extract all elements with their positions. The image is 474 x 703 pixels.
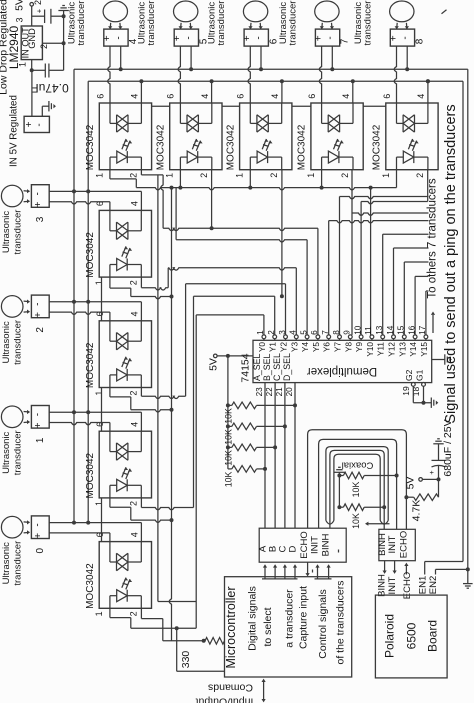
- resistor R8 4.7K: [414, 494, 439, 501]
- transducer T0 arrows: [24, 521, 30, 524]
- pin Y4 (output 5) of 74154: [305, 335, 309, 339]
- svg-text:5V: 5V: [14, 0, 26, 11]
- junction U5 pin4 on bus2: [352, 81, 354, 103]
- junction T4 - on bus1: [119, 67, 123, 71]
- wire U5 pin2 drop to Y8: [351, 170, 353, 335]
- svg-text:-: -: [32, 413, 43, 416]
- svg-text:4: 4: [129, 311, 139, 316]
- svg-text:transducer: transducer: [13, 541, 24, 586]
- svg-text:INIT: INIT: [310, 536, 321, 554]
- optocoupler U7 MOC3042 package: [99, 210, 151, 277]
- wire A_SEL select line: [264, 383, 266, 529]
- junction EN2 on ground rail: [466, 567, 470, 571]
- junction R6 on BINH line: [382, 505, 386, 509]
- svg-text:INIT: INIT: [387, 535, 398, 553]
- svg-text:Signal used to send out a ping: Signal used to send out a ping on the tr…: [443, 104, 459, 423]
- svg-text:MOC3042: MOC3042: [85, 452, 96, 498]
- pin 2 internal lead (U8): [127, 374, 141, 376]
- svg-text:10K: 10K: [351, 482, 361, 498]
- wire Y10 drop from anode common: [370, 188, 372, 335]
- svg-text:Control signals: Control signals: [317, 589, 329, 658]
- wire echo return with arrow: [366, 523, 390, 525]
- junction R2 on pullup rail: [226, 424, 230, 428]
- wire bus1 transducer-common (gnd) horizontal: [74, 68, 468, 70]
- svg-text:MOC3042: MOC3042: [85, 563, 96, 609]
- svg-text:transducer: transducer: [287, 1, 298, 46]
- transducer T6 terminal box: [244, 29, 268, 46]
- ground (output node): [63, 11, 65, 17]
- wire Y14 stub to other transducers: [414, 276, 416, 335]
- junction ch0 pin1 line / drop to commands line: [175, 626, 179, 630]
- led (U3): [187, 151, 198, 163]
- pin Y11 (output 13) of 74154: [381, 335, 385, 339]
- svg-text:Y1: Y1: [269, 342, 278, 352]
- transducer T7 arrows: [321, 23, 324, 29]
- svg-text:4: 4: [129, 422, 139, 427]
- svg-text:2: 2: [129, 280, 139, 285]
- wire Y7 stub to other transducers: [339, 197, 341, 335]
- svg-text:4: 4: [416, 94, 426, 99]
- optocoupler U4 MOC3042 package: [240, 103, 292, 170]
- wire Y4 feed drop V176.1: [175, 188, 177, 240]
- led emit arrows (U6): [408, 139, 412, 149]
- wire EN1 to ping line: [424, 562, 426, 575]
- junction T7 - on bus1: [330, 67, 334, 71]
- svg-text:Y14: Y14: [409, 342, 418, 357]
- capacitor 22uF (output, polarized): [44, 10, 46, 24]
- wire U2 pin1 staircase to anode common: [109, 170, 111, 179]
- pin 1 internal lead (U8): [110, 374, 117, 376]
- triac (U6): [403, 115, 414, 132]
- wire connector between U7-U8 packages: [101, 277, 103, 321]
- svg-text:Y0: Y0: [258, 342, 267, 352]
- junction U4 pin1 on anode common: [249, 170, 251, 188]
- pin 1 internal lead (U9): [110, 484, 117, 486]
- svg-text:transducer: transducer: [146, 1, 157, 46]
- pin 6 internal lead (U5): [321, 103, 323, 123]
- svg-text:Board: Board: [426, 620, 440, 652]
- junction ch2 pin1 on rail: [170, 408, 174, 412]
- wire connector between U9-U10 packages: [101, 498, 103, 542]
- svg-text:+: +: [35, 8, 44, 13]
- wire T6 + to MOC pin6 (hops buses): [248, 46, 250, 103]
- led (U5): [328, 151, 339, 163]
- junction U4 pin2 on Y1 feed row: [280, 294, 284, 298]
- svg-text:20: 20: [285, 387, 294, 397]
- wire T6 - to bus1: [260, 46, 262, 69]
- wire Y11 stub to other transducers: [382, 234, 384, 335]
- arrow input/output commands: [263, 682, 265, 700]
- svg-text:Y7: Y7: [334, 342, 343, 352]
- wire U6 pin2 to Y9: [427, 170, 429, 202]
- svg-text:+: +: [33, 533, 44, 539]
- led emit arrows (U5): [334, 139, 338, 149]
- svg-text:Y13: Y13: [398, 342, 407, 357]
- pin Y13 (output 15) of 74154: [402, 335, 406, 339]
- svg-text:680uF / 25V: 680uF / 25V: [442, 419, 454, 476]
- wire U7(ch3) pin2 staircase: [140, 277, 142, 288]
- svg-text:+: +: [172, 35, 183, 41]
- junction G1 on ground wire: [422, 401, 426, 405]
- pin 6 internal lead (U2): [109, 103, 111, 123]
- svg-text:Ultrasonic: Ultrasonic: [1, 431, 12, 473]
- svg-text:+: +: [102, 35, 113, 41]
- svg-text:Y5: Y5: [312, 342, 321, 352]
- transducer T4 arrows: [109, 23, 112, 29]
- junction bus2 / ping line: [426, 79, 430, 83]
- wire EN2 to ground rail: [435, 569, 437, 574]
- wire ping line vertical (signal to send ping): [462, 81, 464, 561]
- triac (U10): [117, 553, 128, 570]
- wire U10(ch0) pin2 staircase to 330: [140, 608, 142, 618]
- optocoupler U3 MOC3042 package: [170, 103, 222, 170]
- triac (U8): [117, 333, 128, 350]
- svg-text:+: +: [242, 35, 253, 41]
- svg-text:2: 2: [129, 611, 139, 616]
- junction T5 - on bus1: [189, 67, 193, 71]
- wire T8 - to bus1: [406, 46, 408, 69]
- transducer T5 (ultrasonic) circle: [174, 1, 198, 22]
- wire U9(ch1) pin1 staircase to rail: [109, 498, 111, 507]
- resistor R3 10K (pullup): [228, 446, 232, 448]
- pin 1 internal lead (U4): [250, 156, 257, 158]
- svg-text:Ultrasonic: Ultrasonic: [1, 321, 12, 363]
- junction R5 on INIT line: [395, 474, 399, 478]
- wire U9(ch1) pin2 staircase: [140, 498, 142, 508]
- svg-text:2: 2: [199, 173, 209, 178]
- svg-text:-: -: [184, 36, 195, 39]
- svg-text:+: +: [33, 202, 44, 208]
- wire connector between U2-U3 packages: [152, 105, 170, 107]
- transducer T5 terminal box: [174, 29, 198, 46]
- svg-text:5: 5: [299, 330, 308, 335]
- ground (74154 pin 12): [444, 354, 446, 364]
- svg-text:5V: 5V: [405, 477, 417, 490]
- wire T3 + to MOC pin6 (hops buses): [49, 202, 110, 204]
- wire U8(ch2) pin1 staircase to rail: [109, 388, 111, 397]
- junction 5V / pullup rail: [226, 354, 230, 358]
- pin 2 internal lead (U10): [127, 595, 141, 597]
- svg-text:GND: GND: [27, 28, 37, 49]
- svg-text:IN 5V Regulated: IN 5V Regulated: [9, 95, 20, 167]
- svg-text:0.47uF: 0.47uF: [31, 81, 68, 95]
- wire T8 + to MOC pin6 (hops buses): [394, 46, 396, 103]
- led (U7): [117, 259, 128, 271]
- wire bus2 ping-signal horizontal: [88, 80, 463, 82]
- svg-text:1: 1: [381, 173, 391, 178]
- svg-text:3: 3: [14, 17, 24, 22]
- svg-text:6: 6: [95, 94, 105, 99]
- junction R1 to select line: [293, 403, 297, 407]
- wire lower link to microcontroller: [176, 628, 178, 671]
- pin Y10 (output 11) of 74154: [370, 335, 374, 339]
- wire INIT loop (driver to 6500 box): [319, 439, 397, 529]
- svg-text:Y15: Y15: [420, 342, 429, 357]
- svg-text:4: 4: [129, 201, 139, 206]
- svg-text:23: 23: [255, 387, 264, 397]
- svg-text:2: 2: [33, 0, 43, 5]
- junction node pin2/gnd rail: [62, 41, 66, 45]
- junction anode common / Y10 drop: [369, 186, 373, 190]
- svg-text:Ultrasonic: Ultrasonic: [1, 542, 12, 584]
- pin 6 internal lead (U3): [179, 103, 181, 123]
- svg-text:10K: 10K: [224, 429, 234, 445]
- junction 4.7K on ECHO line: [404, 495, 408, 499]
- led (U6): [403, 151, 414, 163]
- svg-text:6: 6: [310, 330, 319, 335]
- pin 4 internal lead (U3): [211, 103, 213, 123]
- svg-text:1: 1: [94, 611, 104, 616]
- svg-text:6: 6: [166, 94, 176, 99]
- pin 1 internal lead (U3): [180, 156, 187, 158]
- pin Y14 (output 16) of 74154: [413, 335, 417, 339]
- battery IN 5V Regulated source box: [24, 116, 49, 132]
- pin Y9 (output 10) of 74154: [359, 335, 363, 339]
- wire T4 + to MOC pin6 (hops buses): [108, 46, 110, 103]
- pin 2 internal lead (U3): [198, 156, 212, 158]
- svg-text:To others 7 transducers: To others 7 transducers: [427, 178, 439, 298]
- wire input node horizontal: [32, 69, 46, 71]
- optocoupler U2 MOC3042 package: [99, 103, 151, 170]
- pin Y5 (output 6) of 74154: [316, 335, 320, 339]
- svg-text:10K: 10K: [351, 513, 361, 529]
- arrow INIT to Polaroid: [394, 561, 396, 571]
- transducer T7 (ultrasonic) circle: [315, 1, 339, 22]
- svg-text:7: 7: [340, 38, 351, 44]
- svg-text:Capture input: Capture input: [297, 586, 309, 649]
- ground (echo pulldown rail): [334, 471, 344, 473]
- arrow group A-D micro to driver: [262, 578, 298, 580]
- wire bus A vertical (left): [73, 69, 75, 522]
- wire ground rail vertical: [63, 16, 65, 70]
- svg-text:Digital signals: Digital signals: [246, 586, 258, 651]
- svg-text:2: 2: [39, 44, 49, 49]
- terminal 5V output circle: [30, 3, 34, 7]
- junction R1 on pullup rail: [226, 403, 230, 407]
- svg-text:+: +: [33, 422, 44, 428]
- led emit arrows (U2): [122, 139, 126, 149]
- transducer T0 (ultrasonic) circle: [1, 516, 23, 538]
- svg-text:D_SEL: D_SEL: [282, 353, 292, 381]
- transducer T7 terminal box: [315, 29, 339, 46]
- demultiplexer U11 74154 box: [253, 340, 432, 382]
- svg-text:6: 6: [307, 94, 317, 99]
- svg-text:-: -: [34, 123, 45, 126]
- transducer T3 arrows: [24, 190, 30, 193]
- wire rail ground to R5/R6: [338, 472, 340, 507]
- svg-text:Y12: Y12: [388, 342, 397, 357]
- wire Y6 stub to other transducers: [328, 221, 330, 335]
- pin 4 internal lead (U10): [140, 542, 142, 562]
- wire regulator GND pin 2 to ground rail: [42, 42, 63, 44]
- transducer T1 (ultrasonic) circle: [1, 406, 23, 428]
- driver/buffer box (A B C D ECHO INIT BINH): [259, 528, 346, 562]
- svg-text:G2: G2: [404, 369, 414, 381]
- junction T8 - on bus1: [405, 67, 409, 71]
- svg-text:1: 1: [94, 391, 104, 396]
- transducer T2 arrows: [24, 300, 30, 303]
- led (U4): [257, 151, 268, 163]
- led emit arrows (U8): [122, 357, 126, 367]
- arrow ECHO from Polaroid: [405, 566, 407, 575]
- svg-text:22: 22: [265, 387, 274, 397]
- svg-text:-: -: [113, 36, 124, 39]
- transducer T2 (ultrasonic) circle: [1, 296, 23, 318]
- capacitor C2 680uF/25V: [438, 466, 440, 480]
- resistor R6 10K: [339, 506, 343, 508]
- svg-text:330: 330: [180, 651, 192, 669]
- pin 4 internal lead (U6): [427, 103, 429, 123]
- svg-text:transducer: transducer: [13, 430, 24, 475]
- capacitor C1 0.47uF: [44, 64, 46, 78]
- resistor R2 10K (pullup): [228, 425, 232, 427]
- wire T1 - to MOC pin4 (junction buses): [49, 411, 141, 413]
- svg-text:Demultiplexer: Demultiplexer: [307, 365, 377, 377]
- wire Y13 stub to other transducers: [403, 262, 405, 335]
- wire T2 + to MOC pin6 (hops buses): [49, 312, 110, 314]
- wire T5 - to bus1: [190, 46, 192, 69]
- svg-text:Low Drop Regulated: Low Drop Regulated: [0, 0, 9, 95]
- junction 330 resistor input: [202, 639, 206, 643]
- interface box (BINH INIT ECHO): [379, 529, 415, 560]
- wire anode-common line (pin1 bus): [136, 188, 396, 190]
- svg-text:1: 1: [35, 437, 46, 443]
- svg-text:Coaxial: Coaxial: [342, 460, 374, 471]
- pin 1 internal lead (U6): [397, 156, 404, 158]
- svg-text:transducer: transducer: [13, 320, 24, 365]
- svg-text:6: 6: [382, 94, 392, 99]
- wire 5V to 74154 VCC: [217, 355, 253, 357]
- led (U8): [117, 369, 128, 381]
- svg-text:MOC3042: MOC3042: [225, 124, 236, 170]
- svg-text:10K: 10K: [224, 408, 234, 424]
- svg-text:10: 10: [353, 325, 362, 335]
- pin 4 internal lead (U8): [140, 321, 142, 341]
- optocoupler U9 MOC3042 package: [99, 431, 151, 498]
- wire U10(ch0) pin1 staircase: [109, 608, 111, 617]
- led emit arrows (U9): [122, 467, 126, 477]
- svg-text:Y4: Y4: [301, 342, 310, 352]
- svg-text:6: 6: [236, 94, 246, 99]
- svg-text:1: 1: [18, 62, 28, 67]
- svg-text:G1: G1: [414, 369, 424, 381]
- optocoupler U5 MOC3042 package: [311, 103, 363, 170]
- junction R5 left: [337, 474, 341, 478]
- svg-text:3: 3: [35, 216, 46, 222]
- junction U5 pin1 on anode common: [321, 170, 323, 188]
- svg-text:17: 17: [418, 325, 427, 335]
- wire 5V terminal to regulator pin 3: [31, 6, 33, 26]
- svg-text:2: 2: [129, 501, 139, 506]
- mark dash near capture arrow: [312, 570, 314, 573]
- pin 4 internal lead (U2): [140, 103, 142, 123]
- transducer T2 terminal box: [31, 295, 49, 318]
- wire output node horizontal: [32, 15, 45, 17]
- wire Y1 feed row: [194, 295, 275, 297]
- svg-text:D: D: [288, 545, 299, 552]
- pin 1 internal lead (U5): [322, 156, 329, 158]
- arrow to others: [432, 315, 434, 333]
- svg-text:7: 7: [321, 330, 330, 335]
- wire ECHO loop (driver to 6500 box): [308, 430, 407, 530]
- pin 1 internal lead (U10): [110, 595, 117, 597]
- svg-text:2: 2: [267, 330, 276, 335]
- svg-text:transducer: transducer: [13, 210, 24, 255]
- arrow capture/echo down to micro: [307, 562, 309, 573]
- svg-text:16: 16: [407, 325, 416, 335]
- transducer T4 terminal box: [104, 29, 128, 46]
- resistor R7 330: [205, 638, 225, 645]
- triac (U9): [117, 443, 128, 460]
- wire T4 - to bus1: [120, 46, 122, 69]
- svg-text:1: 1: [256, 330, 265, 335]
- wire battery - to ground: [41, 106, 43, 116]
- mark dash after BINH: [338, 550, 340, 553]
- junction R2 to select line: [283, 424, 287, 428]
- Polaroid 6500 board box: [375, 595, 447, 678]
- ground (battery negative): [48, 101, 50, 111]
- triac (U3): [187, 115, 198, 132]
- triac (U4): [257, 115, 268, 132]
- svg-text:ECHO: ECHO: [399, 531, 410, 558]
- svg-text:EN2: EN2: [428, 576, 439, 594]
- junction node at output cap / ground: [62, 14, 66, 18]
- junction U3 pin4 on bus2: [211, 81, 213, 103]
- coaxial cable sheath outer: [326, 447, 388, 521]
- svg-text:-: -: [32, 523, 43, 526]
- triac (U7): [117, 222, 128, 239]
- transducer T6 arrows: [250, 23, 253, 29]
- svg-text:4: 4: [130, 94, 140, 99]
- svg-text:9: 9: [343, 330, 352, 335]
- wire T0 - to MOC pin4 (junction buses): [49, 522, 141, 524]
- led (U10): [117, 590, 128, 602]
- pin 4 internal lead (U9): [140, 431, 142, 451]
- pin Y0 (output 1) of 74154: [262, 335, 266, 339]
- pin 6 internal lead (U10): [109, 542, 111, 562]
- transducer T8 terminal box: [390, 29, 414, 46]
- pin 4 internal lead (U7): [140, 210, 142, 230]
- pin Y7 (output 8) of 74154: [338, 335, 342, 339]
- svg-text:transducer: transducer: [76, 1, 87, 46]
- microcontroller box: [225, 577, 352, 677]
- svg-text:4: 4: [129, 532, 139, 537]
- transducer T8 arrows: [396, 23, 399, 29]
- svg-text:Y3: Y3: [290, 342, 299, 352]
- svg-text:ECHO: ECHO: [299, 531, 310, 558]
- wire U7(ch3) pin1 staircase to rail: [109, 277, 111, 288]
- svg-text:1: 1: [235, 173, 245, 178]
- junction ch3 pin1 on rail: [170, 295, 174, 299]
- ground (G1 G2): [430, 398, 432, 408]
- wire G2/G1 to ground: [412, 386, 414, 402]
- svg-text:+: +: [427, 470, 436, 475]
- svg-text:Microcontroller: Microcontroller: [224, 587, 238, 669]
- svg-text:1: 1: [94, 173, 104, 178]
- optocoupler U8 MOC3042 package: [99, 321, 151, 388]
- wire connector between U3-U4 packages: [222, 105, 240, 107]
- junction U3 pin1 on anode common: [179, 170, 181, 188]
- pin Y12 (output 14) of 74154: [392, 335, 396, 339]
- svg-text:21: 21: [275, 387, 284, 397]
- svg-text:2: 2: [340, 173, 350, 178]
- pin Y8 (output 9) of 74154: [348, 335, 352, 339]
- wire Y8 stub to other transducers: [352, 213, 429, 215]
- svg-text:to select: to select: [262, 607, 274, 646]
- stray mark: [442, 10, 447, 14]
- wire Y4 feed row: [176, 240, 307, 242]
- svg-text:2: 2: [129, 173, 139, 178]
